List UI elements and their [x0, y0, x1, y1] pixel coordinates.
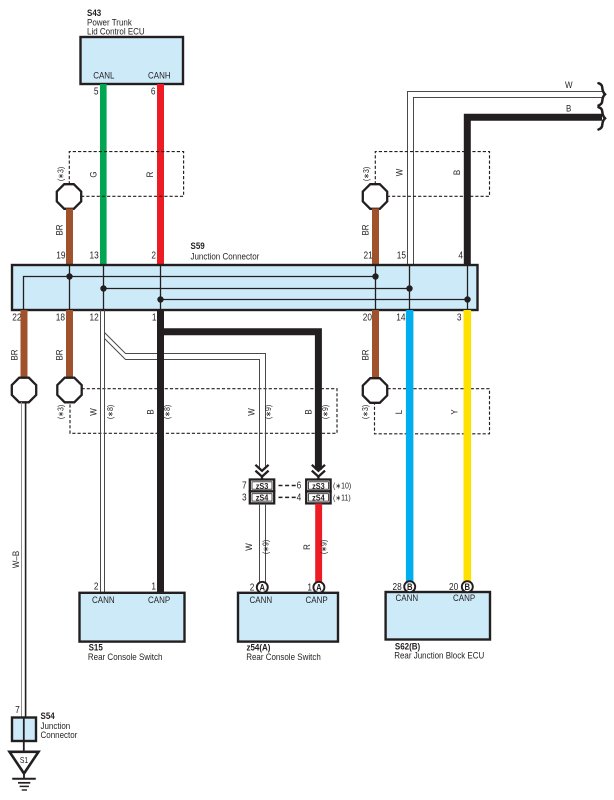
svg-text:20: 20: [449, 582, 458, 593]
svg-text:(∗3): (∗3): [361, 404, 371, 419]
break symbol W wire: [599, 83, 606, 105]
svg-text:Y: Y: [449, 409, 460, 414]
junction dot bus1/pin19: [66, 273, 72, 279]
svg-text:(∗8): (∗8): [163, 404, 173, 419]
svg-text:15: 15: [397, 250, 406, 261]
svg-text:(∗10): (∗10): [333, 481, 352, 491]
ground triangle S1: [10, 752, 39, 774]
svg-text:20: 20: [363, 312, 372, 323]
svg-text:W: W: [565, 79, 573, 90]
svg-text:B: B: [145, 409, 156, 414]
svg-text:B: B: [303, 409, 314, 414]
S59 internal vertical pin19-pin18: [69, 266, 71, 309]
svg-text:CANN: CANN: [92, 594, 115, 605]
wire W white S59.12 to S15.2 (double line): [100, 310, 102, 593]
S59 internal vertical pin2-pin1: [160, 266, 162, 309]
svg-text:zS3: zS3: [256, 481, 269, 491]
connector zS3/zS4 right: [306, 480, 330, 504]
svg-text:18: 18: [56, 312, 65, 323]
svg-text:BR: BR: [360, 224, 371, 235]
svg-text:B: B: [566, 103, 571, 114]
svg-text:Junction Connector: Junction Connector: [191, 251, 260, 262]
wire Y yellow S59.3 to S62B.20: [464, 310, 472, 583]
svg-text:W–B: W–B: [11, 551, 22, 568]
junction dot bus2/pin15: [406, 285, 412, 291]
svg-text:L: L: [394, 410, 405, 415]
octagon connector bottom-2: [57, 378, 81, 403]
svg-text:13: 13: [89, 250, 98, 261]
svg-text:zS3: zS3: [312, 481, 325, 491]
svg-text:Lid Control ECU: Lid Control ECU: [87, 26, 145, 37]
wire B thick S59.1 to S15.1: [157, 310, 164, 593]
svg-text:W: W: [88, 408, 99, 416]
svg-text:CANP: CANP: [148, 594, 170, 605]
svg-text:BR: BR: [9, 349, 20, 360]
dashes between zS3 pair: [279, 485, 297, 487]
svg-text:R: R: [302, 544, 313, 550]
svg-text:S59: S59: [191, 240, 205, 251]
svg-text:A: A: [316, 582, 322, 593]
dashed connector box bottom-left: [70, 389, 337, 434]
svg-text:12: 12: [89, 312, 98, 323]
S59 internal vertical pin13-pin12: [103, 266, 105, 309]
svg-text:4: 4: [458, 250, 463, 261]
svg-text:BR: BR: [360, 349, 371, 360]
svg-text:5: 5: [94, 86, 99, 97]
wire through S54: [23, 718, 25, 742]
svg-text:2: 2: [94, 581, 99, 592]
pin circle A (CANP z54A): [313, 582, 324, 593]
svg-text:CANP: CANP: [306, 594, 328, 605]
octagon connector bottom-right: [363, 378, 387, 403]
shield chevron right: [312, 465, 325, 480]
svg-text:Connector: Connector: [41, 729, 78, 740]
switch z54(A) Rear Console Switch: [238, 593, 338, 642]
ground symbol: [23, 774, 25, 779]
svg-text:W: W: [394, 168, 405, 176]
svg-text:W: W: [244, 543, 255, 551]
S59 internal vertical pin21-pin20: [375, 266, 377, 309]
junction dot bus3/pin2: [157, 296, 163, 302]
svg-text:(∗9): (∗9): [261, 539, 271, 554]
switch S15 Rear Console Switch: [80, 593, 185, 642]
svg-text:19: 19: [56, 250, 65, 261]
wire B thick black horizontal from right, down to S59.4: [467, 117, 602, 265]
svg-text:(∗3): (∗3): [56, 404, 66, 419]
wire BR brown S59.18 down to octagon: [66, 310, 73, 378]
wire W white horizontal from right, down to S59.15 (double line): [408, 92, 603, 266]
svg-text:A: A: [260, 582, 266, 593]
ECU S43 Power Trunk Lid Control ECU: [81, 37, 184, 84]
S59 internal riser from pin 22 and bus 1: [24, 277, 376, 310]
svg-text:2: 2: [151, 250, 156, 261]
dashes between zS4 pair: [279, 496, 297, 498]
svg-text:CANL: CANL: [93, 70, 114, 81]
svg-text:G: G: [88, 171, 99, 177]
wire L blue S59.14 to S62B.28: [406, 310, 414, 583]
ECU S62(B) Rear Junction Block: [386, 592, 490, 640]
octagon connector top-right: [363, 184, 387, 209]
octagon connector bottom-1 (to W-B): [12, 378, 36, 403]
svg-text:2: 2: [250, 582, 255, 593]
svg-text:1: 1: [307, 582, 312, 593]
svg-text:1: 1: [151, 581, 156, 592]
svg-text:28: 28: [393, 582, 402, 593]
svg-text:Rear Console Switch: Rear Console Switch: [246, 651, 321, 662]
junction dot bus1/pin21: [372, 273, 378, 279]
junction dot bus3/pin4: [464, 296, 470, 302]
svg-text:3: 3: [242, 492, 247, 503]
svg-text:B: B: [452, 170, 463, 175]
svg-text:(∗9): (∗9): [321, 404, 331, 419]
svg-text:CANH: CANH: [148, 70, 171, 81]
svg-text:1: 1: [152, 312, 157, 323]
svg-text:(∗8): (∗8): [106, 404, 116, 419]
wire W-B octagon down to S54 (double line): [21, 402, 23, 718]
dashed connector box bottom-right: [375, 389, 490, 434]
pin circle B (CANP S62B): [462, 581, 473, 592]
pin circle B (CANN S62B): [404, 581, 415, 592]
svg-text:R: R: [145, 172, 156, 178]
wire G green CANL S43.5 to S59.13: [100, 84, 107, 265]
wire R red CANH S43.6 to S59.2: [157, 84, 164, 265]
break symbol B wire: [599, 107, 606, 129]
svg-text:22: 22: [12, 312, 21, 323]
wire BR brown S59.20 down to octagon: [372, 310, 379, 378]
svg-text:21: 21: [364, 250, 373, 261]
svg-text:3: 3: [457, 312, 462, 323]
svg-text:(∗3): (∗3): [362, 166, 372, 181]
svg-text:(∗11): (∗11): [333, 493, 351, 503]
svg-text:(∗9): (∗9): [264, 404, 274, 419]
S59 internal vertical pin15-pin14: [409, 266, 411, 309]
svg-text:BR: BR: [54, 224, 65, 235]
svg-text:CANN: CANN: [250, 594, 273, 605]
shield chevron left: [255, 465, 268, 480]
wire BR brown S59.22 down to octagon: [21, 310, 28, 378]
S59 internal bus 3: [161, 299, 468, 301]
svg-text:7: 7: [15, 704, 20, 715]
S59 internal vertical pin4-pin3: [467, 266, 469, 309]
S59 internal bus 2: [104, 288, 410, 290]
dashed connector box top-right: [375, 152, 489, 197]
wire BR brown octagon to S59.21: [372, 209, 379, 266]
svg-text:CANN: CANN: [396, 593, 419, 604]
svg-text:4: 4: [297, 492, 302, 503]
svg-text:BR: BR: [54, 349, 65, 360]
svg-text:B: B: [407, 581, 413, 592]
svg-text:6: 6: [297, 480, 302, 491]
svg-text:(∗9): (∗9): [319, 539, 329, 554]
svg-text:CANP: CANP: [453, 593, 475, 604]
svg-text:S1: S1: [20, 756, 28, 766]
svg-text:zS4: zS4: [312, 493, 325, 503]
wire R red zS4 to z54A.1: [315, 504, 322, 583]
wire B thick branch to zS3 right: [161, 332, 319, 470]
junction dot bus2/pin13: [100, 285, 106, 291]
dashed connector box top-left: [69, 152, 183, 197]
svg-text:(∗3): (∗3): [56, 166, 66, 181]
octagon connector top-left: [57, 184, 81, 209]
svg-text:6: 6: [151, 86, 156, 97]
svg-text:7: 7: [242, 480, 247, 491]
wire W white zS4 to z54A.2 (double line): [259, 504, 261, 583]
connector zS3/zS4 left: [250, 480, 274, 504]
wire W white branch diagonal to zS3 left: [105, 333, 266, 469]
wire S54 to ground: [23, 741, 25, 752]
svg-text:W: W: [246, 408, 257, 416]
svg-text:Rear Console Switch: Rear Console Switch: [88, 651, 163, 662]
svg-text:zS4: zS4: [256, 493, 269, 503]
svg-text:14: 14: [396, 312, 405, 323]
pin circle A (CANN z54A): [257, 582, 268, 593]
svg-text:Rear Junction Block ECU: Rear Junction Block ECU: [394, 650, 484, 661]
wire BR brown octagon to S59.19: [66, 209, 73, 266]
svg-text:B: B: [465, 581, 471, 592]
junction connector S54: [12, 718, 36, 742]
